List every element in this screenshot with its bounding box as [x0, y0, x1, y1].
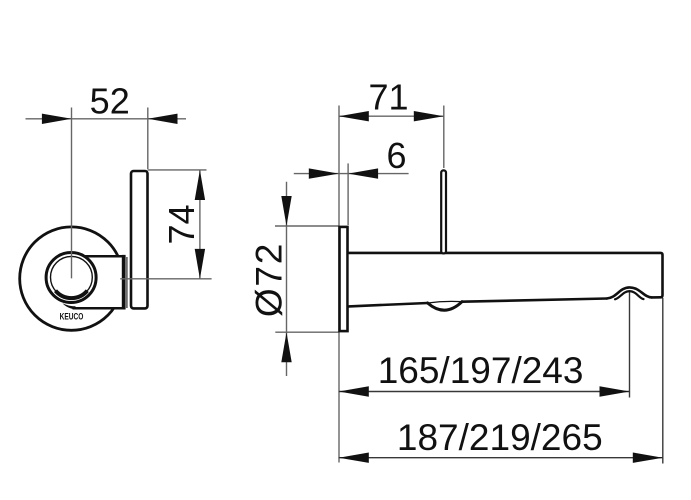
svg-text:71: 71 [368, 77, 408, 118]
svg-text:6: 6 [386, 135, 406, 176]
svg-text:52: 52 [90, 81, 130, 122]
svg-text:165/197/243: 165/197/243 [378, 350, 584, 391]
svg-text:187/219/265: 187/219/265 [397, 417, 603, 458]
svg-text:Ø72: Ø72 [249, 242, 290, 317]
svg-text:KEUCO: KEUCO [60, 311, 84, 321]
svg-text:74: 74 [161, 204, 202, 244]
